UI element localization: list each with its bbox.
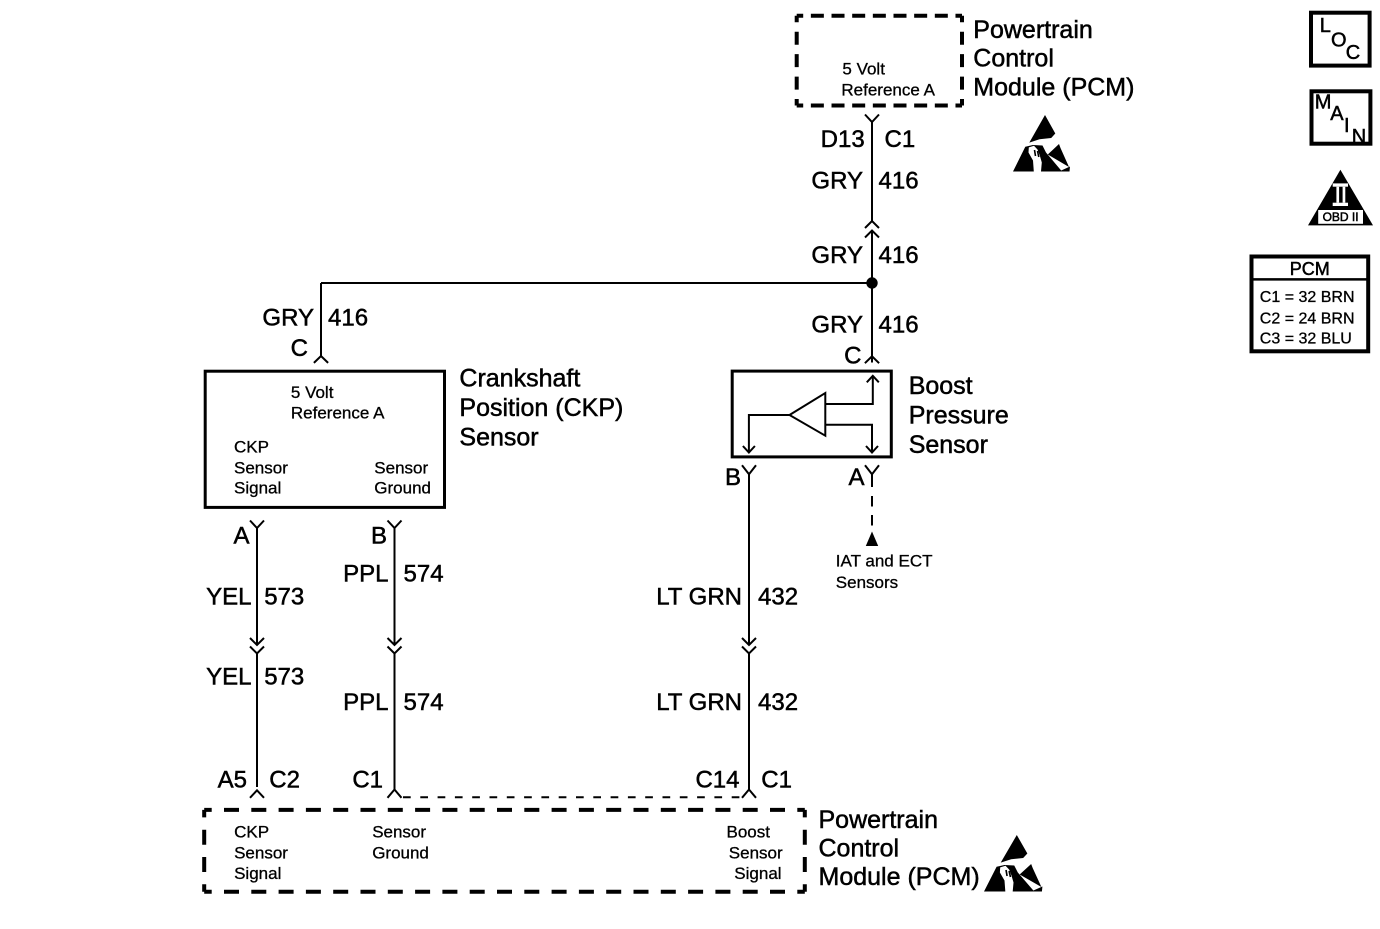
MAIN legend box	[1312, 91, 1371, 148]
svg-text:C: C	[1346, 42, 1360, 64]
PCM bottom box (dashed)	[204, 810, 805, 892]
svg-text:573: 573	[264, 663, 304, 690]
dashed wire to IAT/ECT sensors	[871, 474, 873, 487]
OBD II symbol	[1308, 170, 1373, 226]
connector fork at Boost B	[742, 465, 756, 474]
svg-text:OBD II: OBD II	[1323, 210, 1359, 224]
svg-text:Sensor: Sensor	[234, 843, 288, 862]
svg-text:Boost: Boost	[909, 372, 973, 400]
svg-text:L: L	[1320, 15, 1331, 37]
svg-text:C1 = 32 BRN: C1 = 32 BRN	[1260, 289, 1355, 306]
svg-text:A5: A5	[218, 766, 247, 793]
internal wire to C with up arrow	[825, 376, 873, 404]
amplifier triangle	[790, 393, 826, 436]
svg-text:Signal: Signal	[734, 864, 781, 883]
svg-text:PPL: PPL	[343, 560, 388, 587]
svg-text:Boost: Boost	[727, 823, 771, 842]
svg-text:Reference A: Reference A	[291, 404, 385, 423]
label Powertrain Control Module (PCM) top	[973, 16, 1134, 101]
svg-text:Ground: Ground	[374, 479, 431, 498]
svg-text:C14: C14	[695, 766, 739, 793]
svg-text:574: 574	[404, 560, 444, 587]
internal wire to A with down arrow	[825, 425, 872, 453]
svg-text:GRY: GRY	[811, 312, 863, 339]
svg-text:B: B	[725, 464, 741, 491]
svg-text:432: 432	[758, 584, 798, 611]
svg-text:IAT and ECT: IAT and ECT	[836, 551, 933, 570]
svg-text:GRY: GRY	[262, 305, 314, 332]
svg-text:PCM: PCM	[1290, 259, 1330, 279]
arrowhead to IAT and ECT sensors	[866, 532, 878, 547]
svg-text:N: N	[1352, 126, 1366, 148]
label YEL 573 (2)	[206, 663, 304, 690]
svg-text:Sensor: Sensor	[909, 431, 988, 459]
svg-text:Sensor: Sensor	[729, 843, 783, 862]
connector fork at CKP A	[250, 521, 264, 529]
label LT GRN 432 (2)	[656, 689, 798, 716]
label PPL 574 (1)	[343, 560, 443, 587]
wire YEL 573 lower segment	[256, 654, 258, 788]
svg-text:416: 416	[879, 312, 919, 339]
svg-text:C: C	[291, 335, 308, 362]
svg-text:Control: Control	[819, 835, 900, 863]
svg-text:B: B	[371, 522, 387, 549]
svg-text:A: A	[848, 464, 864, 491]
svg-text:GRY: GRY	[811, 242, 863, 269]
wire YEL 573 upper segment	[256, 528, 258, 645]
svg-text:YEL: YEL	[206, 663, 251, 690]
svg-text:Control: Control	[973, 45, 1054, 73]
svg-text:M: M	[1315, 92, 1332, 114]
label GRY 416 (1)	[811, 167, 918, 194]
svg-text:5 Volt: 5 Volt	[842, 60, 885, 79]
CKP sensor box	[205, 371, 444, 507]
svg-text:C2: C2	[269, 766, 300, 793]
internal wire to B with down arrow	[749, 415, 790, 453]
svg-text:Reference A: Reference A	[841, 80, 935, 99]
svg-text:574: 574	[404, 689, 444, 716]
svg-text:432: 432	[758, 689, 798, 716]
svg-text:PPL: PPL	[343, 689, 388, 716]
in-line connector chevrons (LT GRN wire)	[742, 638, 756, 654]
wire branch vertical to CKP C pin	[320, 283, 322, 356]
label GRY 416 (2)	[811, 242, 918, 269]
wire branch horizontal to CKP	[321, 282, 872, 284]
svg-text:CKP: CKP	[234, 823, 269, 842]
svg-text:Module (PCM): Module (PCM)	[973, 73, 1134, 101]
wire GRY 416 upper segment	[871, 122, 873, 221]
svg-text:573: 573	[264, 584, 304, 611]
svg-text:A: A	[233, 522, 249, 549]
svg-text:D13: D13	[821, 126, 865, 153]
label LT GRN 432 (1)	[656, 584, 798, 611]
connector fork at C1 (PPL)	[388, 790, 402, 798]
PCM top box (dashed) 5 Volt Reference A	[797, 16, 962, 106]
svg-text:Powertrain: Powertrain	[819, 806, 939, 834]
wire PPL 574 upper segment	[394, 528, 396, 645]
svg-text:416: 416	[879, 242, 919, 269]
label YEL 573 (1)	[206, 584, 304, 611]
svg-text:C2 = 24 BRN: C2 = 24 BRN	[1260, 310, 1355, 327]
svg-text:O: O	[1331, 30, 1347, 52]
LOC legend box	[1311, 13, 1370, 66]
svg-text:416: 416	[328, 305, 368, 332]
in-line connector chevrons (YEL wire)	[250, 638, 264, 654]
svg-text:CKP: CKP	[234, 438, 269, 457]
svg-text:LT GRN: LT GRN	[656, 584, 742, 611]
PCM connector legend table	[1252, 257, 1369, 352]
label Crankshaft Position (CKP) Sensor	[459, 365, 623, 452]
svg-text:Position (CKP): Position (CKP)	[459, 394, 623, 422]
svg-text:Sensor: Sensor	[459, 424, 538, 452]
svg-text:GRY: GRY	[811, 167, 863, 194]
svg-text:Sensor: Sensor	[374, 459, 428, 478]
svg-text:LT GRN: LT GRN	[656, 689, 742, 716]
connector fork at C14	[742, 790, 756, 798]
svg-text:C3 = 32 BLU: C3 = 32 BLU	[1260, 330, 1352, 347]
connector fork into Boost C	[865, 356, 879, 363]
wire PPL 574 lower segment	[394, 654, 396, 790]
junction node (splice)	[866, 277, 877, 288]
label Powertrain Control Module (PCM) bottom	[819, 806, 980, 891]
label PPL 574 (2)	[343, 689, 443, 716]
connector fork at Boost A	[865, 465, 879, 474]
svg-text:5 Volt: 5 Volt	[291, 383, 334, 402]
wire GRY 416 middle segment	[871, 231, 873, 363]
wire LT GRN 432 lower segment	[748, 654, 750, 790]
svg-text:Signal: Signal	[234, 479, 281, 498]
in-line connector chevrons (GRY wire)	[865, 221, 879, 238]
svg-text:A: A	[1330, 103, 1344, 125]
Boost Pressure Sensor box	[732, 371, 891, 457]
svg-text:416: 416	[879, 167, 919, 194]
dashed internal connection C1 to C14	[403, 796, 741, 798]
label GRY 416 (3)	[811, 312, 918, 339]
svg-text:C1: C1	[352, 766, 383, 793]
svg-text:Signal: Signal	[234, 864, 281, 883]
svg-text:I: I	[1344, 115, 1350, 137]
connector chevron at A5	[250, 790, 264, 798]
wire LT GRN 432 upper segment	[748, 474, 750, 645]
svg-text:Module (PCM): Module (PCM)	[819, 863, 980, 891]
ESD symbol top (electrostatic discharge sensitive)	[1013, 115, 1070, 172]
svg-text:Powertrain: Powertrain	[973, 16, 1093, 44]
svg-text:Ground: Ground	[372, 843, 429, 862]
svg-text:Sensor: Sensor	[372, 823, 426, 842]
connector fork D13 at PCM	[865, 115, 879, 123]
svg-text:Sensor: Sensor	[234, 459, 288, 478]
svg-text:Pressure: Pressure	[909, 401, 1009, 429]
svg-text:C1: C1	[761, 766, 792, 793]
svg-text:YEL: YEL	[206, 584, 251, 611]
connector fork into CKP C	[314, 356, 328, 363]
svg-text:C: C	[844, 342, 861, 369]
svg-text:Crankshaft: Crankshaft	[459, 365, 580, 393]
svg-text:Sensors: Sensors	[836, 573, 898, 592]
svg-text:C1: C1	[885, 126, 916, 153]
label Boost Pressure Sensor	[909, 372, 1009, 459]
connector fork at CKP B	[388, 521, 402, 529]
label IAT and ECT Sensors	[836, 551, 933, 592]
in-line connector chevrons (PPL wire)	[388, 638, 402, 654]
label GRY 416 (left branch)	[262, 305, 368, 332]
ESD symbol bottom	[984, 835, 1042, 892]
